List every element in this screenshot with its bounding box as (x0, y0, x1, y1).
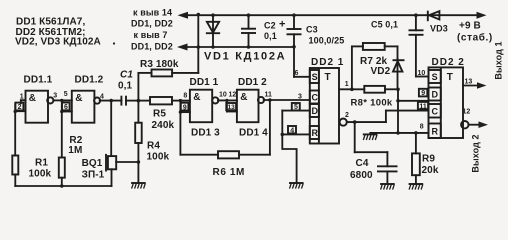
gate label DD1 2 (238, 77, 267, 88)
svg-text:T: T (325, 72, 331, 83)
svg-text:8: 8 (183, 93, 187, 100)
pin 12 of DD2.2 (inverted Q) (461, 109, 479, 129)
svg-text:13: 13 (465, 79, 473, 86)
wire: DD1.1 output to DD1.2 inputs (54, 99, 64, 114)
gate DD1.2 (NAND) (72, 91, 100, 123)
gate DD1.1 (NAND) (26, 91, 54, 123)
svg-text:DD1 4: DD1 4 (239, 128, 268, 139)
Выход 1 label (vertical) (494, 41, 504, 79)
svg-text:к выв 14: к выв 14 (133, 8, 172, 18)
svg-text:+: + (279, 19, 285, 31)
pin 9 of DD1.3 (boxed) (180, 103, 190, 112)
svg-text:R4: R4 (147, 141, 160, 152)
svg-text:VD2, VD3 КД102А: VD2, VD3 КД102А (15, 37, 101, 48)
gate DD1.2 label (75, 75, 104, 86)
pin 10 of DD1.3 (219, 91, 227, 98)
pin 12 of DD1.4 (229, 91, 237, 98)
arrow to pin 7 (left end of ground rail) (177, 44, 188, 51)
node A: C1-R3-R4-R5 junction (137, 99, 141, 103)
svg-text:S: S (432, 72, 438, 82)
svg-text:9: 9 (183, 104, 187, 111)
C3 label (306, 25, 344, 46)
resistor R2 (59, 112, 65, 187)
resistor R7 (352, 43, 398, 89)
gate DD1.4 (NAND) (237, 90, 264, 123)
svg-text:R9: R9 (422, 154, 435, 165)
wire: DD1.4 output to DD2.1 C (264, 98, 310, 102)
svg-text:4: 4 (100, 94, 104, 101)
svg-text:DD1, DD2: DD1, DD2 (131, 42, 173, 52)
gate label DD1 1 (190, 77, 219, 88)
svg-text:D: D (312, 106, 319, 116)
svg-text:ЗП-1: ЗП-1 (82, 169, 105, 180)
wire: to pin 11 (C) of DD2.2 (386, 110, 429, 112)
pin 4 of DD2.1 (R, boxed) (281, 126, 310, 136)
ground under C4 (380, 184, 395, 190)
svg-text:3: 3 (53, 93, 57, 100)
wire: DD1.3 out to DD1.4 in (218, 99, 237, 112)
R4 label (147, 141, 170, 163)
capacitor C2 (241, 13, 256, 48)
resistor R8 (364, 86, 400, 93)
capacitor C5 (409, 13, 424, 34)
pin 13 of DD2.2 (Q) (463, 79, 478, 86)
svg-text:DD1 3: DD1 3 (191, 128, 220, 139)
R9 label (422, 154, 439, 177)
svg-text:Выход 2: Выход 2 (471, 134, 481, 172)
net label: к выв 14 DD1, DD2 (131, 8, 173, 29)
wire: VD2/R8 node down to R net (396, 89, 400, 134)
svg-text:D: D (432, 90, 439, 100)
wire: R5 split to DD1.3 inputs (179, 99, 182, 114)
ground under BQ1/R4 node (131, 162, 146, 189)
svg-text:0,1: 0,1 (264, 31, 277, 41)
svg-text:0,1: 0,1 (118, 81, 133, 92)
gate DD1.3 (NAND) (190, 90, 219, 123)
svg-text:5: 5 (64, 91, 68, 98)
wire: to pin 9 (D) of DD2.2 (398, 100, 429, 102)
svg-text:&: & (240, 92, 247, 103)
R1 label (29, 158, 52, 180)
wire: bottom feedback bus (15, 184, 111, 188)
capacitor C1 (121, 96, 138, 106)
svg-text:2: 2 (345, 112, 349, 119)
svg-text:&: & (29, 93, 36, 104)
svg-text:6: 6 (64, 104, 68, 111)
flip-flop DD2.2 (429, 67, 464, 138)
svg-text:VD2: VD2 (371, 66, 391, 77)
diode VD1 (207, 13, 219, 48)
diode VD3 (428, 11, 440, 22)
svg-text:&: & (75, 93, 82, 104)
svg-text:&: & (193, 92, 200, 103)
pin 1 of DD2.1 (Q output) (339, 81, 364, 91)
svg-text:1: 1 (20, 93, 24, 100)
C4 label (350, 158, 373, 181)
arrow: Выход 2 (479, 121, 489, 128)
ground under R9 (409, 184, 424, 190)
wire: DD2.1 D/R to ground (282, 111, 296, 183)
svg-text:R8* 100k: R8* 100k (351, 98, 393, 109)
+9 В (стаб.) label (457, 21, 493, 44)
flip-flop DD2.1 (310, 68, 339, 144)
pin 8 of DD2.2 (R) (420, 124, 424, 131)
R5 label (152, 109, 175, 132)
R6 label (213, 167, 245, 178)
svg-text:DD2 1: DD2 1 (311, 57, 344, 68)
pin 6 of DD2.1 (S) from ground rail (294, 34, 310, 77)
C2 label (264, 21, 277, 42)
gate label DD1 3 (191, 128, 220, 139)
ground under DD2.1 (289, 183, 304, 189)
svg-text:R1: R1 (35, 158, 48, 169)
VD2 label (371, 66, 391, 77)
svg-text:C2: C2 (264, 21, 276, 31)
wire: R net (pin 8) with ground (370, 131, 428, 135)
svg-text:C4: C4 (356, 158, 369, 169)
svg-text:1M: 1M (68, 145, 82, 156)
wire: R3 riser to rails (197, 13, 201, 73)
pin 9 of DD2.2 (D, boxed) (419, 89, 427, 97)
pin 13 of DD1.4 (boxed) (226, 103, 237, 112)
svg-text:8: 8 (420, 124, 424, 131)
svg-text:C: C (432, 106, 439, 116)
pin 1 of DD1.1 (20, 93, 26, 103)
svg-text:11: 11 (265, 92, 273, 99)
wire: DD1.2 output node (100, 99, 122, 103)
svg-text:DD1.1: DD1.1 (24, 75, 53, 86)
svg-text:100k: 100k (29, 169, 52, 180)
arrow to pin 14 (left end of +9V rail) (178, 12, 189, 19)
svg-text:3: 3 (298, 94, 302, 101)
svg-text:C5 0,1: C5 0,1 (371, 20, 398, 30)
VD1 value label (204, 51, 286, 63)
resistor R5 (138, 97, 180, 104)
C5 label (371, 20, 398, 30)
svg-text:DD1, DD2: DD1, DD2 (131, 19, 173, 29)
parts list text (15, 17, 115, 48)
svg-text:C3: C3 (306, 25, 318, 35)
svg-text:R5: R5 (153, 109, 166, 120)
svg-text:240k: 240k (152, 120, 175, 131)
C1 label (118, 70, 133, 92)
svg-text:VD1 КД102А: VD1 КД102А (204, 51, 286, 63)
svg-text:+9 В: +9 В (459, 21, 481, 32)
flip-flop label DD2 1 (311, 57, 344, 68)
wire: +9V top rail (186, 14, 478, 16)
svg-text:13: 13 (228, 104, 236, 111)
svg-text:R3 180k: R3 180k (140, 59, 179, 70)
wire: DD1.1 input feedback riser (14, 104, 17, 156)
pin 11 of DD1.4 (265, 92, 273, 99)
VD3 label (430, 24, 448, 34)
svg-text:100,0/25: 100,0/25 (309, 36, 345, 46)
BQ1 label (82, 158, 105, 180)
svg-text:DD1 1: DD1 1 (190, 77, 219, 88)
R7 label (360, 56, 388, 67)
svg-text:6: 6 (295, 70, 299, 77)
svg-text:12: 12 (229, 91, 237, 98)
svg-text:VD3: VD3 (430, 24, 448, 34)
svg-text:20k: 20k (422, 165, 439, 176)
wire: DD2.1 Q-bar node (347, 111, 386, 124)
pin 4 of DD1.2 (100, 94, 104, 101)
wire: ground rail (pin 7) (186, 46, 295, 48)
svg-text:(стаб.): (стаб.) (457, 32, 493, 44)
R3 label (140, 59, 179, 70)
diode VD2 (393, 46, 405, 89)
svg-text:6800: 6800 (350, 170, 373, 181)
svg-text:4: 4 (290, 127, 294, 134)
Выход 2 label (vertical) (471, 134, 481, 172)
capacitor C4 (355, 122, 398, 184)
net label: к выв 7 DD1, DD2 (131, 30, 173, 52)
pin 11 of DD2.2 (C, boxed) (418, 102, 428, 110)
gate label DD1 4 (239, 128, 268, 139)
svg-text:BQ1: BQ1 (82, 158, 103, 169)
flip-flop label DD2 2 (432, 57, 465, 68)
svg-text:C1: C1 (120, 70, 133, 81)
svg-text:S: S (312, 72, 318, 82)
svg-text:R: R (432, 127, 439, 137)
svg-text:к выв 7: к выв 7 (134, 30, 168, 40)
pin 3 of DD2.1 (C) (298, 94, 302, 101)
pin 8 of DD1.3 (180, 93, 190, 101)
pin 5 of DD1.2 (62, 91, 72, 100)
pin 10 of DD2.2 (S) from C5 (416, 35, 429, 77)
pin 2 of DD2.1 (inverted Q) (340, 112, 349, 126)
svg-text:R6 1M: R6 1M (213, 167, 245, 178)
svg-text:DD1 2: DD1 2 (238, 77, 267, 88)
resistor R6 (180, 100, 270, 158)
svg-text:11: 11 (419, 103, 427, 110)
svg-text:10: 10 (219, 91, 227, 98)
svg-text:Выход 1: Выход 1 (494, 41, 504, 79)
svg-text:DD1.2: DD1.2 (75, 75, 104, 86)
resistor R1 (12, 156, 18, 187)
resistor R9 (412, 133, 420, 184)
R2 label (68, 135, 82, 156)
capacitor C3 (electrolytic, + mark) (279, 13, 302, 48)
gate DD1.1 label (24, 75, 53, 86)
pin 2 of DD1.1 (boxed) (15, 103, 25, 112)
pin 5 of DD2.1 (D, boxed) (282, 103, 310, 111)
svg-text:2: 2 (18, 104, 22, 111)
arrow: +9V output right (477, 12, 487, 19)
svg-text:12: 12 (463, 109, 471, 116)
svg-text:DD2 2: DD2 2 (432, 57, 465, 68)
svg-text:T: T (447, 72, 453, 83)
svg-text:100k: 100k (147, 151, 170, 162)
resistor R3 (138, 70, 198, 101)
svg-text:R: R (312, 128, 319, 138)
svg-text:5: 5 (294, 104, 298, 111)
svg-text:9: 9 (421, 90, 425, 97)
pin 6 of DD1.2 (boxed) (62, 103, 72, 112)
R8 label (351, 98, 393, 109)
resistor R4 (135, 101, 142, 162)
arrow: Выход 1 (477, 82, 487, 89)
ground on R net (363, 134, 378, 140)
svg-text:1: 1 (345, 81, 349, 88)
svg-text:C: C (312, 93, 319, 103)
crystal BQ1 (ЗП-1 resonator) (106, 101, 140, 186)
svg-text:10: 10 (418, 70, 426, 77)
pin 3 of DD1.1 (53, 93, 57, 100)
